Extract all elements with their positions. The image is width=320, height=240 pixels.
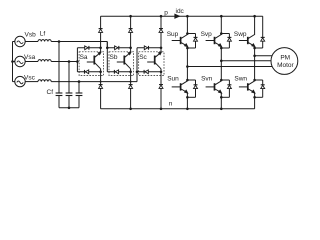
node Sb top-left junction — [106, 47, 109, 50]
diode Sb n-side (n rail to cell) — [129, 72, 133, 109]
node Sb emitter junction — [129, 71, 132, 74]
diode Sc p-side (cell output to p rail) — [159, 16, 163, 48]
diode Sb p-side (cell output to p rail) — [129, 16, 133, 48]
arrow idc current direction — [175, 14, 179, 18]
diode Swp freewheel — [255, 16, 265, 48]
wire source neutral bus — [13, 42, 15, 82]
node phase b cap tap — [58, 40, 61, 43]
svg-text:Vsc: Vsc — [24, 74, 36, 81]
wire phase a — [51, 61, 77, 63]
svg-text:idc: idc — [176, 8, 185, 15]
wire Sa top — [77, 47, 100, 49]
wire inverter output u — [187, 66, 272, 68]
diode Sc n-side (n rail to cell) — [159, 72, 163, 109]
diode Sa p-side (cell output to p rail) — [99, 16, 103, 48]
node v output tap — [220, 60, 223, 63]
box Sb dashed switch outline — [109, 52, 134, 76]
node Svp diode bottom junction — [220, 47, 223, 50]
wire capacitor star point — [59, 107, 79, 109]
node Sa emitter junction — [99, 71, 102, 74]
capacitor Cf phase a — [66, 62, 73, 108]
node Swn diode bottom junction — [253, 96, 256, 99]
diode Sa n-side (n rail to cell) — [99, 72, 103, 109]
svg-text:Svn: Svn — [201, 76, 213, 83]
node u leg n rail junction — [186, 108, 189, 111]
diode Sc top (phase to collector) — [144, 46, 147, 50]
node Sb collector junction — [129, 47, 132, 50]
node Svn diode top junction — [220, 79, 223, 82]
svg-text:Swn: Swn — [234, 76, 247, 83]
wire n rail — [101, 108, 255, 110]
source Vsb — [15, 36, 25, 46]
node capacitor star junction — [68, 107, 71, 110]
node Svn diode bottom junction — [220, 96, 223, 99]
node Sc n rail junction — [160, 108, 163, 111]
inductor Lf phase a — [25, 60, 51, 62]
diode Swn freewheel — [255, 80, 265, 97]
node Swn diode top junction — [253, 79, 256, 82]
svg-text:Lf: Lf — [40, 31, 46, 38]
transistor Sup IGBT — [172, 35, 188, 47]
capacitor Cf phase b — [56, 42, 63, 108]
wire w leg lower — [254, 93, 256, 109]
svg-text:Sup: Sup — [167, 31, 179, 38]
transistor Sun IGBT — [172, 81, 188, 93]
capacitor Cf phase c — [76, 82, 83, 108]
node v leg p rail junction — [220, 15, 223, 18]
transistor Sc IGBT — [147, 48, 161, 72]
node Sa collector junction — [99, 47, 102, 50]
wire Sb top — [107, 47, 130, 49]
node Sc emitter junction — [160, 71, 163, 74]
box Sc dashed switch outline — [139, 52, 164, 76]
node phase a cap tap — [68, 60, 71, 63]
wire Sb bottom — [107, 71, 130, 73]
diode Svp freewheel — [220, 32, 231, 48]
wire inverter output v — [221, 60, 271, 62]
node phase c cap tap — [78, 80, 81, 83]
wire u leg lower — [186, 93, 188, 109]
wire v leg upper — [220, 16, 222, 81]
svg-text:Svp: Svp — [201, 31, 213, 38]
diode Svn freewheel — [221, 80, 231, 97]
wire Sc left edge (phase c input) — [136, 48, 138, 82]
node Sc bottom-left junction — [136, 71, 139, 74]
node w output tap — [253, 55, 256, 58]
node u leg p rail junction — [186, 15, 189, 18]
wire w leg upper — [254, 16, 256, 81]
node Sa phase a tap — [76, 60, 79, 63]
node neutral junction — [11, 60, 14, 63]
diode Sb bottom (emitter to phase) — [115, 70, 118, 74]
transistor Sb IGBT — [117, 48, 131, 72]
inductor Lf phase b — [25, 40, 51, 42]
svg-text:PM: PM — [280, 54, 290, 61]
motor PM Motor — [271, 48, 298, 75]
node Sup diode bottom junction — [186, 47, 189, 50]
source Vsa — [15, 56, 25, 66]
transistor Swp IGBT — [239, 35, 255, 47]
wire Sb left edge (phase b input) — [106, 42, 108, 72]
junction blob phase c crossing Sb leg — [130, 81, 132, 83]
svg-text:Motor: Motor — [277, 62, 294, 69]
svg-text:Vsb: Vsb — [25, 31, 37, 38]
svg-text:Swp: Swp — [234, 31, 247, 38]
wire phase b — [51, 42, 107, 48]
node Sun diode bottom junction — [186, 96, 189, 99]
wire inverter output w — [255, 55, 273, 57]
junction blob crossings — [58, 41, 255, 83]
box Sa dashed switch outline — [79, 52, 104, 76]
node v leg n rail junction — [220, 108, 223, 111]
wire Sa left edge (phase a input) — [76, 48, 78, 72]
node Sun diode top junction — [186, 79, 189, 82]
svg-text:n: n — [169, 100, 173, 107]
source Vsc — [15, 76, 25, 86]
node u output tap — [186, 65, 189, 68]
node Sc collector junction — [160, 47, 163, 50]
svg-text:Cf: Cf — [47, 89, 54, 96]
node Sup diode top junction — [186, 32, 189, 35]
wire phase c — [51, 72, 137, 82]
svg-text:Sb: Sb — [110, 54, 118, 61]
transistor Svp IGBT — [206, 35, 222, 47]
diode Sup freewheel — [186, 32, 197, 48]
diode Sun freewheel — [187, 80, 197, 97]
diode Sc bottom (emitter to phase) — [145, 70, 148, 74]
wire v leg lower — [220, 93, 222, 109]
wire u leg upper — [186, 16, 188, 81]
node Sc p rail junction — [160, 15, 163, 18]
svg-text:p: p — [164, 10, 168, 17]
wire Sc bottom — [137, 71, 161, 73]
node Svp diode top junction — [220, 32, 223, 35]
node w leg p rail junction — [253, 15, 256, 18]
node Sb p rail junction — [129, 15, 132, 18]
inductor Lf phase c — [25, 80, 51, 82]
wire Sc top — [137, 47, 161, 49]
svg-text:Vsa: Vsa — [24, 54, 36, 61]
svg-text:Sc: Sc — [139, 54, 147, 61]
wire p rail — [101, 15, 263, 17]
transistor Sa IGBT — [87, 48, 101, 72]
wire Sa bottom — [77, 71, 100, 73]
diode Sb top (phase to collector) — [115, 46, 118, 50]
transistor Svn IGBT — [206, 81, 222, 93]
svg-text:Sa: Sa — [80, 54, 88, 61]
junction blob phase c crossing Sa leg — [100, 81, 102, 83]
svg-text:Sun: Sun — [167, 76, 179, 83]
node Swp diode bottom junction — [253, 47, 256, 50]
diode Sa top (phase to collector) — [85, 46, 88, 50]
transistor Swn IGBT — [239, 81, 255, 93]
diode Sa bottom (emitter to phase) — [85, 70, 88, 74]
node Sb n rail junction — [129, 108, 132, 111]
